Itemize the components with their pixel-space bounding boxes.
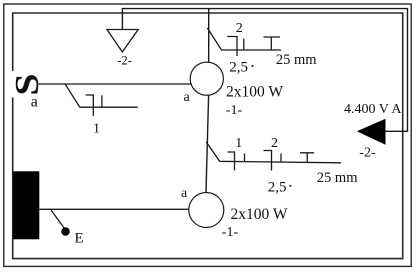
svg-text:-1-: -1- xyxy=(226,103,243,118)
svg-text:2,5: 2,5 xyxy=(229,60,248,76)
svg-text:2: 2 xyxy=(236,21,243,36)
svg-text:2x100 W: 2x100 W xyxy=(231,206,288,223)
svg-text:-2-: -2- xyxy=(359,146,376,161)
svg-text:25 mm: 25 mm xyxy=(317,170,358,186)
svg-text:-1-: -1- xyxy=(222,225,239,240)
svg-text:a: a xyxy=(181,186,188,201)
svg-text:1: 1 xyxy=(93,122,100,137)
svg-text:2x100 W: 2x100 W xyxy=(226,84,283,101)
svg-text:25 mm: 25 mm xyxy=(276,52,317,68)
svg-text:a: a xyxy=(31,94,38,111)
svg-text:2: 2 xyxy=(271,136,278,151)
svg-text:-2-: -2- xyxy=(117,54,132,68)
svg-text:1: 1 xyxy=(235,136,242,151)
svg-text:4.400 V A: 4.400 V A xyxy=(344,102,402,117)
svg-text:E: E xyxy=(75,231,84,247)
svg-text:2,5: 2,5 xyxy=(268,180,287,196)
svg-text:a: a xyxy=(184,90,191,105)
